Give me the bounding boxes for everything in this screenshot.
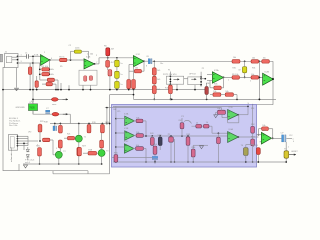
op-amp U3 input marks	[134, 58, 135, 60]
wire J1 pin2	[12, 59, 18, 61]
wire R6 bottom	[107, 56, 109, 58]
wire R10 bottom	[133, 88, 135, 91]
svg-text:R2 10k: R2 10k	[42, 66, 48, 68]
junction x107.7	[107, 57, 109, 59]
svg-text:10k: 10k	[135, 67, 138, 69]
resistor R47	[180, 123, 184, 129]
junction bus x206	[206, 99, 208, 101]
junction J2 pin2	[17, 138, 19, 140]
capacitor C4 yellow vertical	[115, 71, 120, 78]
resistor R55	[114, 155, 118, 163]
junction bus x222	[236, 99, 238, 101]
junction R16 rail	[55, 89, 57, 91]
junction P3 t4	[170, 83, 172, 85]
resistor R19	[87, 125, 91, 133]
wire R45 top	[187, 135, 189, 138]
resistor R53	[251, 139, 255, 146]
wire U6D fb bottom	[228, 122, 239, 124]
wire U6D out right	[238, 114, 248, 116]
wire U9 fb top left	[259, 128, 262, 130]
wire R35 right	[221, 87, 223, 89]
junction J2 pin4	[17, 142, 19, 144]
op-amp U6C	[124, 144, 134, 153]
svg-text:R23: R23	[40, 121, 43, 123]
resistor R12	[152, 68, 156, 75]
wire U6A out	[134, 120, 137, 122]
svg-text:1u: 1u	[120, 84, 122, 86]
wire r21 left	[64, 137, 67, 139]
wire r20 top	[101, 124, 103, 125]
svg-text:7805: 7805	[29, 107, 35, 110]
wire S1 pin a	[82, 85, 84, 89]
wire R35 up	[209, 80, 211, 87]
transistor Q3 olive	[244, 148, 249, 156]
junction x61 rail	[60, 89, 62, 91]
wire U6D in lower vert	[221, 115, 223, 118]
wire U3 fb down	[143, 61, 145, 71]
wire R11 left	[129, 70, 134, 72]
wire x53 step	[52, 171, 54, 174]
resistor R51	[218, 110, 226, 114]
wire R50 down	[217, 144, 219, 162]
svg-text:8: 8	[146, 66, 147, 68]
svg-text:R35: R35	[214, 83, 217, 85]
resistor R24	[43, 138, 50, 142]
wire C2 right	[82, 50, 89, 52]
wire R37 left	[210, 94, 213, 96]
junction prow d	[170, 135, 172, 137]
wire C2 drop to U2	[88, 51, 90, 58]
capacitor C6	[148, 59, 150, 64]
junction x259 bus	[259, 99, 261, 101]
op-amp U9	[261, 132, 271, 144]
junction R44 bus	[170, 161, 172, 163]
wire U6A in	[116, 118, 125, 120]
svg-text:7: 7	[96, 62, 97, 64]
svg-text:C1: C1	[25, 53, 27, 55]
wire x252 down	[252, 105, 254, 127]
wire R53 down	[252, 146, 254, 162]
wire r28 right	[97, 152, 99, 154]
transistor Q4 yellow	[284, 151, 289, 158]
junction r25 rail	[39, 163, 41, 165]
svg-text:IC2: IC2	[31, 101, 34, 103]
wire R9 bottom	[128, 88, 130, 91]
op-amp U5 input marks	[264, 75, 265, 77]
resistor R32	[262, 60, 270, 63]
junction S1b rail	[90, 89, 92, 91]
wire U3 inv vertical	[128, 65, 130, 80]
op-amp U6D input marks	[228, 111, 229, 113]
wire row y123.5	[50, 123, 110, 125]
capacitor C12	[282, 135, 284, 142]
wire R51 left down	[216, 111, 218, 113]
wire r19 top	[88, 124, 90, 125]
wire r24 drop	[52, 140, 54, 148]
junction prow e	[181, 135, 183, 137]
wire U9 in lower stub	[260, 141, 262, 143]
wire purple entry y107.6	[105, 107, 112, 109]
junction R4 rail	[57, 89, 59, 91]
junction prail 1	[115, 118, 117, 120]
wire rail x33 down	[32, 56, 34, 114]
resistor R46	[191, 149, 195, 157]
wire x70 drop	[69, 114, 71, 123]
wire rail y170.7	[3, 170, 88, 172]
resistor R27	[78, 147, 82, 155]
svg-text:2: 2	[245, 157, 246, 159]
junction R45 bus	[187, 161, 189, 163]
wire R29 to Q5	[101, 148, 103, 149]
wire C10 top	[159, 136, 161, 137]
svg-text:10k: 10k	[252, 57, 255, 59]
svg-text:10k: 10k	[51, 74, 54, 76]
resistor R3	[42, 72, 50, 75]
capacitor C7	[46, 110, 50, 112]
wire D5 bottom	[27, 157, 29, 160]
junction fb right b	[49, 73, 51, 75]
junction C9 row2	[244, 77, 246, 79]
wire U3 out to C6	[144, 60, 148, 62]
junction x106.9 row	[106, 123, 108, 125]
resistor R56	[262, 127, 269, 131]
svg-text:4: 4	[293, 141, 294, 143]
wire purple left rail	[115, 106, 117, 154]
svg-text:R31: R31	[252, 68, 255, 70]
junction fb right a	[49, 68, 51, 70]
svg-text:IC1B: IC1B	[86, 57, 91, 59]
resistor R35	[214, 86, 222, 90]
svg-text:10k: 10k	[213, 91, 216, 93]
wire purple bus y162	[113, 161, 286, 163]
wire stub x69	[68, 85, 70, 89]
junction row r20	[102, 123, 104, 125]
junction prow a	[145, 135, 147, 137]
wire R16 top	[36, 76, 38, 81]
junction rail x244	[244, 60, 246, 62]
op-amp U5	[263, 73, 274, 85]
wire pin1 to node	[18, 55, 27, 57]
wire to U6E in	[211, 126, 213, 133]
resistor R52	[251, 126, 255, 133]
wire U1 output	[50, 59, 60, 61]
junction Q3 bus	[245, 161, 247, 163]
svg-text:1k: 1k	[206, 122, 208, 124]
transistor Q5	[98, 150, 105, 157]
junction bus x171	[171, 99, 173, 101]
junction J2 pin1	[17, 135, 19, 137]
wire C9 bottom	[244, 73, 246, 78]
resistor R44	[169, 137, 174, 142]
wire connector ground drop	[16, 68, 18, 88]
wire C6 out	[152, 60, 273, 62]
junction C5 rail	[116, 89, 118, 91]
junction J2 pin3	[17, 140, 19, 142]
wire cap branch up	[70, 51, 72, 60]
wire U4 in+	[207, 74, 212, 76]
op-amp U6E	[228, 132, 239, 143]
wire row y126.2	[192, 125, 213, 127]
wire x286 down	[285, 142, 287, 162]
wire purple top b	[112, 107, 222, 109]
junction x133.5 bus	[133, 94, 135, 96]
svg-text:10k: 10k	[217, 108, 220, 110]
wire R1 bottom	[29, 75, 31, 90]
junction bus x259	[259, 99, 261, 101]
junction row q1	[78, 123, 80, 125]
wire y145.3 link	[193, 144, 208, 146]
svg-text:10u: 10u	[160, 63, 163, 65]
wire U9 in upper	[257, 134, 263, 136]
wire R15 to bus	[169, 94, 171, 100]
wire U9 fb right vert	[272, 129, 274, 139]
svg-text:1: 1	[288, 147, 289, 149]
op-amp U6A	[125, 116, 135, 125]
resistor R4	[47, 78, 54, 81]
wire divider x109.6	[109, 95, 111, 174]
svg-text:C12: C12	[289, 135, 292, 137]
wire purple main row	[144, 135, 228, 137]
svg-text:10k: 10k	[262, 125, 265, 127]
wire purple feed	[253, 104, 273, 106]
junction op6 in node	[258, 134, 260, 136]
svg-text:10k: 10k	[233, 57, 236, 59]
svg-text:5: 5	[250, 80, 251, 82]
svg-text:LM-SET: LM-SET	[291, 151, 298, 153]
wire P4 bottom pin	[194, 85, 196, 90]
wire R37-R38 link	[221, 94, 225, 96]
resistor R15	[169, 85, 173, 93]
op-amp U6B	[125, 131, 135, 140]
junction J1 pin1	[17, 55, 19, 57]
wire x174 drop	[174, 139, 176, 162]
wire U9 fb top right	[268, 128, 272, 130]
svg-text:10k: 10k	[251, 74, 254, 76]
wire J2 pin2	[18, 138, 29, 140]
svg-text:a=0.4: a=0.4	[25, 162, 30, 164]
resistor R33	[232, 76, 240, 80]
highlight purple region	[112, 105, 257, 168]
wire x154 pads	[153, 75, 155, 76]
svg-text:R5 1k: R5 1k	[59, 56, 64, 58]
wire P4 top stub	[200, 72, 202, 77]
op-amp U1	[41, 55, 50, 66]
junction D3 bus	[257, 161, 259, 163]
junction P4 t2	[200, 78, 202, 80]
wire R38 drop	[236, 95, 238, 100]
svg-text:10k: 10k	[51, 69, 54, 71]
resistor R16	[35, 81, 38, 88]
junction P4 t3	[200, 81, 202, 83]
junction bus left	[115, 161, 117, 163]
svg-text:1: 1	[228, 80, 229, 82]
resistor R26	[58, 140, 62, 148]
wire U6D fb left	[227, 118, 229, 123]
svg-text:GROUND: GROUND	[16, 107, 26, 109]
resistor R8	[108, 70, 112, 76]
wire R36 top	[206, 83, 208, 87]
junction U1 output	[49, 59, 51, 61]
wire U6E in wire	[212, 132, 228, 134]
resistor R7	[106, 60, 110, 67]
svg-text:JP2: JP2	[28, 132, 31, 134]
wire x146 drop	[145, 149, 147, 163]
svg-text:P2: P2	[202, 68, 204, 70]
junction R46 bus	[192, 161, 194, 163]
svg-text:4: 4	[37, 145, 38, 147]
junction P3 t3	[170, 81, 172, 83]
wire C9 top	[244, 61, 246, 66]
svg-text:C8: C8	[56, 123, 58, 125]
wire op-amp U1 inverting input	[33, 62, 41, 64]
potentiometer P4 wiper arrow	[191, 78, 195, 80]
junction fb left a	[39, 68, 41, 70]
wire x248 up	[247, 106, 249, 114]
junction U4 out	[223, 77, 225, 79]
wire y157.6	[112, 157, 152, 159]
svg-text:OPTO2: OPTO2	[189, 74, 197, 76]
wire C10 bottom	[159, 146, 161, 150]
wire r25 down	[39, 156, 41, 164]
wire J2 to r23 row	[28, 140, 38, 142]
resistor R22	[77, 147, 81, 155]
svg-text:1k: 1k	[200, 85, 202, 87]
wire J2 pin5	[18, 145, 29, 147]
wire R51 gnd drop	[215, 112, 217, 114]
wire r23 up	[39, 123, 41, 126]
junction fb left b	[39, 73, 41, 75]
diode D5	[26, 155, 29, 157]
ground arrow A1	[24, 165, 28, 168]
svg-text:3: 3	[21, 61, 22, 63]
connector J1 shell tab	[0, 54, 3, 62]
junction x286 bus	[285, 161, 287, 163]
junction P3 t1	[170, 75, 172, 77]
transistor Q2	[55, 151, 62, 158]
potentiometer P3 box	[166, 76, 183, 84]
op-amp U6A input marks	[126, 117, 127, 119]
junction U3 output	[143, 60, 145, 62]
arrow up net	[154, 160, 156, 163]
junction prow c	[159, 135, 161, 137]
wire purple top a	[113, 105, 248, 107]
wire rail y173.8	[53, 173, 110, 175]
wire r28 left	[83, 152, 88, 154]
wire left frame rail	[3, 68, 19, 171]
resistor R29	[100, 140, 104, 148]
resistor R48	[196, 124, 202, 128]
wire pin3 right	[18, 62, 34, 64]
diode D2	[52, 112, 59, 116]
junction P4 rail	[194, 89, 196, 91]
switch S1 contact a	[84, 76, 87, 81]
junction prail 2	[115, 132, 117, 134]
svg-text:1 . 10k: 1 . 10k	[87, 54, 93, 56]
resistor R43	[150, 137, 154, 145]
wire bus y99 left branch	[33, 98, 63, 100]
svg-text:1u: 1u	[120, 63, 122, 65]
wire U6B out	[134, 135, 137, 137]
wire r18 top	[59, 124, 61, 126]
resistor R23	[38, 124, 42, 132]
svg-text:sens: sens	[52, 104, 56, 106]
junction P3 rail	[176, 89, 178, 91]
ground arrow A3	[214, 115, 218, 118]
wire U6D fb down	[238, 115, 240, 123]
resistor R6 red vertical	[106, 48, 110, 56]
junction rail x259	[259, 60, 261, 62]
op-amp U6C input marks	[125, 145, 126, 147]
wire cap C1 to op-amp U1	[29, 55, 40, 57]
wire x273 right rail	[272, 61, 274, 104]
svg-text:10k: 10k	[136, 117, 139, 119]
highlight purple overlay	[112, 105, 257, 168]
resistor R36 dark vertical	[205, 87, 208, 95]
op-amp U4 input marks	[213, 73, 214, 75]
wire r21 to q1	[74, 137, 76, 139]
wire J2 pin1	[18, 135, 29, 137]
junction x273 out	[272, 78, 274, 80]
junction U5 out	[272, 78, 274, 80]
resistor R37	[213, 93, 221, 97]
wire LED2 row	[33, 113, 70, 115]
wire R44 top	[170, 135, 172, 138]
wire y94.6 link	[110, 94, 134, 96]
wire J2 aux vertical	[23, 143, 25, 150]
junction row r19	[88, 123, 90, 125]
junction x146 bus	[145, 161, 147, 163]
capacitor C5 yellow vertical	[115, 81, 120, 88]
resistor R25	[38, 148, 42, 156]
op-amp U4	[212, 72, 223, 83]
wire R51 drop	[221, 108, 223, 111]
wire row to U3	[99, 57, 133, 59]
wire IC1 bottom	[32, 111, 34, 115]
junction P3 t2	[170, 78, 172, 80]
svg-text:IC2B: IC2B	[265, 72, 270, 74]
wire U6C out	[133, 148, 136, 150]
wire U6E out	[239, 136, 259, 138]
wire P3 top stub	[169, 72, 171, 77]
wire U2 output	[95, 63, 99, 65]
wire R43 top	[151, 136, 153, 137]
capacitor C10 dark	[158, 137, 162, 146]
svg-text:IC3B: IC3B	[124, 128, 129, 130]
junction J1 pin2	[17, 59, 19, 61]
wire C12 out	[286, 137, 292, 139]
switch S1 contact b	[89, 76, 92, 81]
wire r22 to rail	[78, 156, 80, 164]
svg-text:5: 5	[56, 148, 57, 150]
resistor R42	[136, 147, 144, 151]
wire x154 pads2	[153, 84, 155, 86]
wire r24 right	[50, 139, 53, 141]
svg-text:1: 1	[21, 54, 22, 56]
resistor R38	[225, 93, 233, 97]
resistor R54	[153, 146, 157, 154]
wire R16 bottom	[36, 87, 38, 89]
wire J2 pin3	[18, 140, 29, 142]
wire R7 down	[107, 67, 109, 70]
wire P3 bottom pin	[176, 84, 178, 89]
svg-text:schematic rev2: schematic rev2	[10, 147, 13, 162]
junction prow b	[151, 135, 153, 137]
wire R52-R53	[252, 133, 254, 139]
svg-text:10k: 10k	[136, 132, 139, 134]
connector J2	[9, 135, 18, 151]
op-amp U2 input marks	[85, 60, 86, 62]
svg-text:1k: 1k	[196, 123, 198, 125]
